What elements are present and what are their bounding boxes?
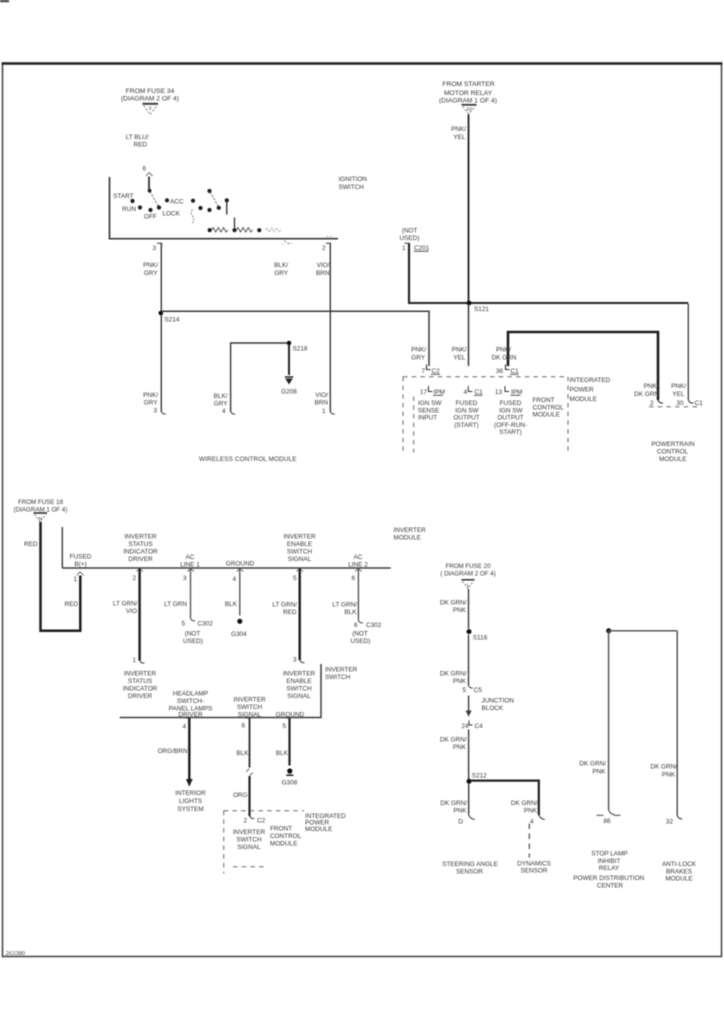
node: FROM FUSE 18 (DIAGRAM 1 OF 4) [14,499,68,513]
connector triangle 10 (starter relay feed) [462,105,477,114]
svg-text:PNK/: PNK/ [644,383,659,390]
ground G304 [231,619,247,638]
wire label DK GRN/PNK [440,600,467,615]
module label FRONT CONTROL MODULE [533,397,565,419]
wire: S121 horizontal rail [408,302,688,304]
svg-text:PNK/: PNK/ [143,262,158,269]
wire branch S212 to dynamics sensor [470,781,539,815]
svg-text:INVERTER: INVERTER [394,527,427,534]
svg-text:1: 1 [322,408,326,415]
label INVERTER SWITCH [325,667,358,682]
wire DK GRN/PNK fuse20 to S116 [468,589,470,629]
svg-text:BRN: BRN [315,400,329,407]
svg-text:G304: G304 [231,631,247,638]
svg-text:SIGNAL: SIGNAL [287,693,311,700]
svg-text:D: D [458,819,463,826]
svg-text:INTEGRATED: INTEGRATED [570,377,611,384]
svg-text:FUSED: FUSED [456,400,478,407]
svg-text:G208: G208 [281,389,297,396]
svg-text:USED): USED) [400,235,420,242]
svg-text:2: 2 [650,400,654,407]
WCM pin 3 [143,392,166,415]
switch rotor dashed link pole 1 [148,189,159,207]
wire label DK GRN/PNK [440,737,467,752]
svg-text:BLK: BLK [236,750,249,757]
wire label PNK/YEL (PCM pin 30) [671,383,686,398]
WCM pin 4 [214,393,235,415]
svg-text:HEADLAMP: HEADLAMP [173,691,208,698]
module label POWERTRAIN CONTROL MODULE [651,441,695,463]
svg-text:4: 4 [182,724,186,731]
svg-text:32: 32 [666,819,674,826]
svg-text:C302: C302 [198,621,214,628]
svg-text:BLK/: BLK/ [214,393,228,400]
svg-text:RUN: RUN [122,206,136,213]
switch pin 6 + wire BLK / ORG to IPM pin 2 C2 [241,718,249,768]
node C201 (NOT USED) [400,228,430,253]
svg-text:FUSED: FUSED [70,554,92,561]
switch heater resistor row [208,218,281,233]
svg-text:(NOT: (NOT [352,631,368,638]
svg-text:SWITCH: SWITCH [237,704,263,711]
wire label PNK/YEL (IPM) [452,347,467,362]
svg-text:(NOT: (NOT [402,228,418,235]
svg-text:INVERTER: INVERTER [283,671,316,678]
svg-text:SWITCH: SWITCH [287,549,313,556]
svg-text:(OFF-RUN-: (OFF-RUN- [494,422,527,429]
label INVERTER ENABLE SWITCH SIGNAL (switch input) [283,671,316,701]
svg-text:ORG: ORG [233,792,248,799]
svg-text:ANTI-LOCK: ANTI-LOCK [662,861,697,868]
svg-text:3: 3 [153,408,157,415]
border top edge heavy [2,62,723,65]
svg-text:DRIVER: DRIVER [128,556,153,563]
wire label PNK/GRY [143,262,158,277]
svg-text:RED: RED [24,541,38,548]
wire PNK/YEL S121 down to IPM pin 4 [468,304,470,366]
inverter pin 4 + wire BLK to ground G304 [232,569,243,616]
wire label LT GRN/RED [272,602,297,617]
switch pin 3 [152,243,161,252]
svg-text:GROUND: GROUND [226,561,255,568]
page corner tick [0,0,9,2]
svg-text:ENABLE: ENABLE [286,678,311,685]
svg-text:DRIVER: DRIVER [178,712,203,719]
connector triangle L (fuse 20 feed) [462,580,475,589]
svg-text:CONTROL: CONTROL [533,404,565,411]
inverter pin 2 + wire LT GRN/VIO down to switch pin 1 [132,569,144,664]
svg-text:INVERTER: INVERTER [124,671,157,678]
svg-text:YEL: YEL [453,134,466,141]
svg-text:ENABLE: ENABLE [287,541,312,548]
IPM connector pin 36 C1 [496,365,519,376]
svg-text:B(+): B(+) [74,561,86,568]
svg-text:FRONT: FRONT [270,826,292,833]
svg-text:GRY: GRY [214,401,228,408]
svg-text:OUTPUT: OUTPUT [453,415,479,422]
svg-text:3: 3 [149,106,152,112]
splice S214 [159,311,180,324]
svg-text:(START): (START) [454,422,479,429]
IPM connector pin 7 C2 [421,365,440,376]
svg-text:1: 1 [402,245,406,252]
wire through junction block with arrow [466,696,472,717]
svg-text:LIGHTS: LIGHTS [179,798,202,805]
svg-text:MODULE: MODULE [533,412,560,419]
wire label DK GRN/PNK [440,671,467,686]
svg-text:DK GRN/: DK GRN/ [440,737,467,744]
dashed wire continuation to dynamics sensor [528,824,530,858]
svg-text:MODULE: MODULE [665,876,692,883]
connector triangle N (fuse 18 feed) [34,513,48,522]
svg-text:POWERTRAIN: POWERTRAIN [651,441,695,448]
svg-text:IGNITION: IGNITION [339,176,368,183]
label INVERTER STATUS INDICATOR DRIVER (switch input) [123,671,158,701]
svg-text:24: 24 [461,723,469,730]
svg-text:IGN SW: IGN SW [418,400,442,407]
wire: S218 left branch down to WCM pin 4 [231,343,287,412]
svg-text:2: 2 [243,818,247,825]
svg-text:SENSOR: SENSOR [456,869,483,876]
svg-text:WIRELESS CONTROL MODULE: WIRELESS CONTROL MODULE [199,456,297,463]
svg-text:S121: S121 [474,306,489,313]
switch pin 2 [322,237,334,253]
wire DK GRN/PNK to stop lamp inhibit relay pin 86 [608,631,610,810]
svg-text:CONTROL: CONTROL [657,449,689,456]
inverter pin label AC LINE 2 [348,554,368,569]
svg-text:RELAY: RELAY [599,865,620,872]
inline connector on BLK/ORG wire [246,769,253,776]
svg-text:MODULE: MODULE [305,826,332,833]
svg-text:LOCK: LOCK [163,211,181,218]
svg-text:2: 2 [322,245,326,252]
svg-text:SWITCH-: SWITCH- [177,698,204,705]
wire: relay net top rail [609,630,678,632]
svg-text:PNK: PNK [662,772,676,779]
svg-text:2: 2 [132,575,136,582]
svg-text:DK GRN/: DK GRN/ [579,761,606,768]
svg-text:6: 6 [241,723,245,730]
svg-text:STATUS: STATUS [128,541,152,548]
inverter pin 6 + wire LT GRN/BLK to C302 (not used) [351,569,362,623]
switch pole 2 contacts and wiper [191,199,203,223]
svg-text:USED): USED) [351,638,371,645]
svg-text:(NOT: (NOT [185,631,201,638]
svg-text:S214: S214 [165,317,180,324]
wire: fuse 34 feed into switch [148,177,150,191]
svg-text:INVERTER: INVERTER [283,534,316,541]
wire label DK GRN/PNK (steering) [440,800,467,815]
ground G208 [281,377,297,396]
wire label DK GRN/PNK (relay) [579,761,606,776]
wire PNK/GRY switch pin3 to S214 to WCM pin3 [160,244,162,412]
module box INTEGRATED POWER MODULE (dashed) [403,377,568,453]
svg-text:C1: C1 [695,400,704,407]
svg-text:4: 4 [530,819,534,826]
wire DK GRN/PNK S116 to junction block pin 5 C5 [468,635,470,686]
svg-text:FROM FUSE 18: FROM FUSE 18 [18,499,64,506]
module label JUNCTION BLOCK [482,698,515,713]
wire DK GRN/PNK S212 to steering angle sensor [469,783,475,820]
switch pin 5 + wire BLK to ground G308 [282,718,289,766]
svg-text:PNK/: PNK/ [411,347,426,354]
svg-text:LT GRN/: LT GRN/ [332,602,357,609]
svg-text:PNK/: PNK/ [451,126,466,133]
svg-text:PNK/: PNK/ [452,347,467,354]
svg-text:1: 1 [132,657,136,664]
svg-text:S218: S218 [293,346,308,353]
svg-text:IGN SW: IGN SW [455,407,479,414]
svg-text:BLK: BLK [276,750,289,757]
svg-text:FRONT: FRONT [533,397,555,404]
ignition switch label [339,176,368,191]
svg-text:CONTROL: CONTROL [270,833,302,840]
svg-text:C2: C2 [257,818,266,825]
svg-text:G308: G308 [282,780,298,787]
module label INTEGRATED POWER MODULE 2 [305,813,346,833]
module box POWERTRAIN CONTROL MODULE (dashed top) [649,406,702,408]
wire: C201 stub down to S121 rail [408,244,410,303]
inverter pin 5 + wire LT GRN/RED down to switch pin 3 [293,569,305,663]
svg-text:RED: RED [134,142,148,149]
svg-text:PNK/: PNK/ [496,347,511,354]
svg-text:FROM FUSE 34: FROM FUSE 34 [126,88,175,95]
svg-text:POWER: POWER [570,387,595,394]
node ANTI-LOCK BRAKES MODULE [662,861,697,883]
svg-text:YEL: YEL [453,355,466,362]
svg-text:GRY: GRY [144,400,158,407]
svg-text:PNK: PNK [524,808,538,815]
wire PNK/YEL starter relay to S121 [468,114,470,303]
inverter pin label INVERTER ENABLE SWITCH SIGNAL [283,534,316,564]
switch pin label HEADLAMP SWITCH- PANEL LAMPS DRIVER [169,691,213,719]
svg-text:DK GRN: DK GRN [634,391,659,398]
svg-text:3: 3 [293,657,297,664]
svg-text:INDICATOR: INDICATOR [123,686,158,693]
module box INTEGRATED POWER MODULE 2 (dashed) [224,811,304,874]
svg-text:OFF: OFF [144,214,157,221]
svg-text:4: 4 [232,576,236,583]
wire label PNK/DK GRN (PCM pin 2) [634,383,659,398]
IPM pin 17 (IGN SW SENSE INPUT) [418,386,445,422]
svg-text:DK GRN/: DK GRN/ [650,764,677,771]
svg-text:MOTOR RELAY: MOTOR RELAY [444,90,493,97]
svg-text:LINE 1: LINE 1 [180,562,200,569]
svg-text:BLK/: BLK/ [274,262,288,269]
svg-text:3: 3 [183,575,187,582]
svg-text:PNK/: PNK/ [143,392,158,399]
svg-text:START): START) [499,429,522,436]
IPM pin 13 (FUSED IGN SW OUTPUT (OFF-RUN-START)) [494,386,527,436]
svg-text:( DIAGRAM 2 OF 4): ( DIAGRAM 2 OF 4) [440,571,495,578]
svg-text:POWER DISTRIBUTION: POWER DISTRIBUTION [573,875,644,882]
svg-text:FROM FUSE 20: FROM FUSE 20 [445,563,491,570]
svg-text:PNK/: PNK/ [671,383,686,390]
svg-text:SIGNAL: SIGNAL [237,844,261,851]
svg-text:SWITCH: SWITCH [236,837,262,844]
svg-text:FUSED: FUSED [500,400,522,407]
connector triangle 3 (fuse 34 feed) [143,104,159,115]
svg-text:BLOCK: BLOCK [482,705,504,712]
module label FRONT CONTROL MODULE 2 [270,826,302,848]
node INTERIOR LIGHTS SYSTEM [175,790,206,813]
node: FROM FUSE 20 (DIAGRAM 2 OF 4) [440,563,495,578]
module label INTEGRATED POWER MODULE [570,377,611,403]
junction block pin 5 C5 [462,686,482,695]
stop lamp relay net junction [606,628,611,633]
svg-text:DK GRN/: DK GRN/ [511,800,538,807]
svg-text:DK GRN/: DK GRN/ [440,671,467,678]
svg-text:OUTPUT: OUTPUT [497,415,523,422]
svg-text:4: 4 [222,408,226,415]
svg-text:S116: S116 [473,635,488,642]
junction block pin 24 C4 [461,721,483,731]
svg-text:BRAKES: BRAKES [666,868,692,875]
wire RED fuse18 loop to inverter FUSED B(+) [41,522,81,631]
svg-text:1: 1 [73,576,77,583]
node DYNAMICS SENSOR [517,861,551,875]
svg-text:FROM STARTER: FROM STARTER [442,81,494,88]
svg-text:N: N [39,516,43,522]
svg-text:GRY: GRY [144,270,158,277]
svg-text:PNK: PNK [453,808,467,815]
svg-text:USED): USED) [183,638,203,645]
svg-text:MODULE: MODULE [270,841,297,848]
svg-text:-: - [281,243,283,248]
svg-text:6: 6 [351,575,355,582]
label INVERTER SWITCH SIGNAL (IPM input) [233,829,266,851]
svg-text:L: L [467,582,470,588]
svg-text:INHIBIT: INHIBIT [598,858,621,865]
node: FROM STARTER MOTOR RELAY (DIAGRAM 1 OF 4) [439,81,497,105]
svg-text:LT GRN/: LT GRN/ [113,601,138,608]
svg-text:5: 5 [282,723,286,730]
switch pin 4 + wire ORG/BRN arrow to interior lights [182,718,192,787]
svg-text:DK GRN: DK GRN [492,355,517,362]
PCM pin 2 [650,400,663,407]
svg-text:BRN: BRN [316,270,330,277]
svg-text:10: 10 [466,106,472,112]
wire: S214 branch to IPM pin 7 [162,311,430,366]
svg-text:6: 6 [142,166,146,173]
inverter pin 3 + wire LT GRN to C302 (not used) [183,569,195,621]
svg-text:MODULE: MODULE [659,456,686,463]
svg-text:5: 5 [462,687,466,694]
svg-text:DK GRN/: DK GRN/ [440,800,467,807]
wire label LT GRN/VIO [113,601,138,616]
svg-text:CENTER: CENTER [597,882,624,889]
splice S121 [467,301,490,313]
svg-text:AC: AC [186,554,195,561]
svg-text:RED: RED [283,609,297,616]
switch pin label INVERTER SWITCH SIGNAL [233,697,266,719]
svg-text:SYSTEM: SYSTEM [177,806,203,813]
wire: S218 to ground G208 [288,344,290,375]
svg-text:VIO/: VIO/ [315,392,328,399]
wire label PNK/YEL [451,126,466,141]
svg-text:PNK: PNK [453,607,467,614]
svg-text:SIGNAL: SIGNAL [288,556,312,563]
svg-text:17: 17 [420,389,428,396]
svg-text:START: START [113,193,133,200]
svg-text:263380: 263380 [6,950,26,957]
inverter pin label INVERTER STATUS INDICATOR DRIVER [123,534,158,564]
svg-text:(DIAGRAM 1 OF 4): (DIAGRAM 1 OF 4) [439,98,497,105]
svg-text:36: 36 [496,368,504,375]
svg-text:INVERTER: INVERTER [233,829,266,836]
svg-text:BLK: BLK [225,601,238,608]
switch position labels [113,193,184,221]
connector 5 C302 (NOT USED) [181,621,213,646]
svg-text:ORG/BRN: ORG/BRN [158,748,188,755]
svg-text:4: 4 [463,389,467,396]
svg-text:3: 3 [152,245,156,252]
svg-text:LT GRN: LT GRN [164,601,187,608]
svg-text:STOP LAMP: STOP LAMP [591,851,627,858]
svg-text:LT BLU/: LT BLU/ [126,134,149,141]
ignition switch pin 6 [142,166,152,177]
svg-text:RED: RED [65,601,79,608]
svg-text:DYNAMICS: DYNAMICS [517,861,551,868]
svg-text:PNK: PNK [453,678,467,685]
switch pole 3 contacts and wiper [207,189,229,215]
svg-text:INVERTER: INVERTER [124,534,157,541]
svg-text:7: 7 [421,368,425,375]
svg-text:SWITCH: SWITCH [286,686,312,693]
module label INVERTER MODULE [394,527,427,542]
switch middle pin (not used stub) [281,241,292,248]
svg-text:BLK: BLK [344,609,357,616]
svg-text:VIO/: VIO/ [317,262,330,269]
wire label PNK/DK GRN (left) [492,347,517,362]
relay pin 86 row in PDC [597,810,621,825]
inverter pin label AC LINE 1 [180,554,200,569]
svg-text:INVERTER: INVERTER [233,697,266,704]
svg-text:IGN SW: IGN SW [499,407,523,414]
svg-text:INPUT: INPUT [418,415,437,422]
svg-text:JUNCTION: JUNCTION [482,698,515,705]
svg-text:DK GRN/: DK GRN/ [440,600,467,607]
svg-text:GRY: GRY [274,270,288,277]
svg-text:C5: C5 [474,687,483,694]
svg-text:S212: S212 [472,773,487,780]
svg-text:MODULE: MODULE [570,396,597,403]
wire label PNK/GRY (IPM sense) [411,347,426,362]
svg-text:YEL: YEL [672,391,685,398]
svg-text:VIO: VIO [126,608,137,615]
wire label LT BLU/RED [126,134,149,149]
wire label DK GRN/PNK (dynamics) [511,800,538,815]
IPM pin 2 C2 (INVERTER SWITCH SIGNAL) [243,816,265,825]
svg-text:INDICATOR: INDICATOR [123,549,158,556]
wire label VIO/BRN [316,262,330,277]
svg-text:INTERIOR: INTERIOR [175,790,206,797]
svg-text:ACC: ACC [170,199,184,206]
ground G308 [282,768,298,786]
WCM pin 1 [315,392,335,415]
wire ORG lower segment [248,776,250,816]
svg-text:30: 30 [676,400,684,407]
module INVERTER MODULE edge line [62,527,390,568]
wire label LT GRN/BLK [332,602,357,617]
svg-text:86: 86 [603,818,611,825]
svg-text:LT GRN/: LT GRN/ [272,602,297,609]
component INVERTER SWITCH body [120,664,321,718]
wire label DK GRN/PNK (ABS) [650,764,677,779]
svg-text:SWITCH: SWITCH [339,184,365,191]
splice S218 [287,341,308,353]
wire DK GRN/PNK to anti-lock brakes module pin 32 [677,631,682,819]
